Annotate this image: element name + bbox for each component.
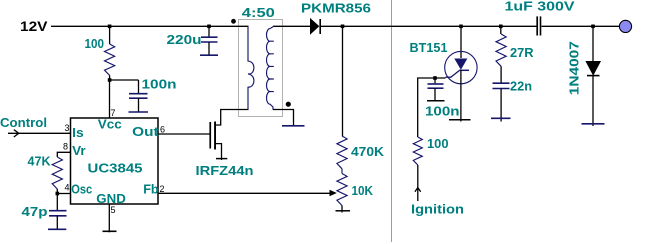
svg-text:1N4007: 1N4007	[567, 41, 582, 95]
wire ignition input	[417, 165, 419, 201]
thyristor Q2 BT151 circle	[445, 51, 477, 83]
svg-text:47K: 47K	[28, 154, 52, 169]
ground below gate 100n	[427, 100, 445, 102]
svg-text:Fb: Fb	[143, 182, 159, 197]
svg-text:GND: GND	[96, 191, 126, 206]
svg-text:100n: 100n	[142, 77, 177, 92]
resistor R 470K	[337, 136, 347, 169]
svg-text:7: 7	[111, 108, 116, 118]
diode D 1N4007	[586, 62, 600, 75]
Ignition arrow	[415, 188, 421, 192]
wire gate to RC network	[418, 78, 446, 137]
junction 12V/R100	[108, 25, 112, 29]
svg-text:1uF 300V: 1uF 300V	[505, 0, 575, 14]
wire Vcc node to 100n cap	[110, 79, 139, 81]
junction pin4/47K/47p	[56, 192, 60, 196]
wire down to 470K	[342, 26, 344, 136]
node output terminal	[619, 20, 631, 32]
wire rail to thyristor anode	[460, 26, 462, 58]
svg-text:Is: Is	[72, 125, 84, 140]
node Vcc junction	[108, 78, 112, 82]
wire pin 8	[57, 152, 70, 157]
svg-text:10K: 10K	[352, 183, 374, 198]
svg-text:47p: 47p	[22, 204, 48, 219]
svg-text:470K: 470K	[351, 144, 385, 159]
transistor Q1 IRFZ44n gate bar	[209, 122, 211, 149]
capacitor C 47p	[56, 194, 58, 211]
svg-text:4: 4	[65, 183, 70, 193]
resistor R 27R	[496, 34, 506, 66]
transformer secondary winding	[267, 26, 274, 109]
wire pin 4	[57, 193, 70, 195]
thyristor cathode bar	[459, 69, 469, 71]
transformer primary winding	[248, 26, 254, 109]
svg-text:Control: Control	[0, 115, 47, 130]
wire pin 5 to ground	[108, 204, 110, 232]
svg-text:27R: 27R	[510, 45, 534, 60]
wire secondary bottom to ground	[273, 110, 294, 126]
vertical gray separator line	[391, 0, 393, 242]
junction 12V/C220u	[207, 25, 211, 29]
svg-text:8: 8	[63, 142, 68, 152]
capacitor C 100n (Vcc decoupling)	[138, 80, 140, 93]
svg-text:Vr: Vr	[72, 143, 86, 158]
wire drain to transformer primary	[216, 110, 249, 126]
thyristor triangle	[454, 59, 467, 70]
svg-text:IRFZ44n: IRFZ44n	[196, 163, 254, 178]
transformer primary phase dot	[231, 19, 236, 24]
svg-text:220u: 220u	[167, 32, 202, 47]
svg-text:5: 5	[111, 205, 116, 215]
svg-text:6: 6	[160, 124, 165, 134]
Control arrow	[14, 130, 19, 137]
ground below 1N4007	[582, 123, 605, 125]
svg-text:12V: 12V	[20, 18, 48, 34]
svg-text:3: 3	[65, 123, 70, 133]
capacitor C 22n	[493, 82, 510, 84]
diode D PKMR856	[311, 19, 319, 34]
ground below 10K	[336, 210, 351, 212]
wire rail to 1N4007	[592, 26, 594, 61]
wire diode cathode to 1uF capacitor	[321, 25, 537, 27]
capacitor C 1uF 300V	[536, 16, 538, 35]
resistor R 10K potentiometer	[337, 174, 347, 206]
svg-text:100: 100	[85, 36, 105, 51]
ground below C 47p	[48, 228, 66, 230]
capacitor C 220u	[208, 26, 210, 36]
ground below thyristor	[449, 119, 471, 121]
svg-text:Osc: Osc	[71, 182, 92, 197]
wire pin 2 Fb to pot wiper	[158, 192, 331, 194]
wire source to ground	[216, 144, 222, 160]
svg-text:2: 2	[160, 184, 165, 194]
junction rail/27R	[499, 25, 503, 29]
transformer T1 outline box	[239, 20, 283, 117]
wire pin 6 Out to MOSFET gate	[158, 133, 210, 135]
svg-text:UC3845: UC3845	[88, 161, 143, 176]
ground below secondary	[282, 125, 305, 127]
ground below 22n	[491, 117, 511, 119]
svg-text:Vcc: Vcc	[98, 116, 122, 131]
thyristor gate lead	[446, 70, 460, 77]
wire 1N4007 to ground	[592, 76, 594, 126]
wire cathode to ground	[460, 70, 462, 121]
wire 12V rail to transformer primary top	[51, 25, 249, 27]
resistor R 100 (ignition)	[413, 137, 422, 165]
ground below source	[216, 158, 227, 160]
junction rail/1N4007	[591, 25, 595, 29]
junction gate/100n	[433, 76, 437, 80]
svg-text:100n: 100n	[425, 104, 460, 119]
resistor R 100 (Vcc feed)	[109, 26, 111, 44]
transformer secondary phase dot	[286, 102, 291, 107]
svg-text:BT151: BT151	[410, 40, 448, 55]
wire secondary top to diode anode	[273, 25, 311, 27]
svg-text:4:50: 4:50	[242, 5, 275, 20]
wire rail to 27R	[500, 26, 502, 34]
pot wiper arrow	[330, 190, 337, 197]
ground below C 100n	[129, 111, 149, 113]
svg-text:PKMR856: PKMR856	[301, 1, 371, 16]
svg-text:22n: 22n	[510, 79, 532, 94]
transistor Q1 IRFZ44n channel bar	[214, 122, 216, 150]
svg-text:Ignition: Ignition	[411, 202, 464, 217]
svg-text:100: 100	[427, 136, 449, 151]
wire Vcc node down to pin 7	[109, 80, 111, 118]
wire Control to pin 3	[8, 132, 71, 134]
svg-text:Out: Out	[132, 124, 159, 139]
ground below pin 5	[103, 230, 117, 232]
ground below C 220u	[200, 54, 218, 56]
op-amp U1 UC3845 body	[71, 118, 159, 204]
capacitor C 100n (gate)	[434, 78, 436, 83]
wire 1uF capacitor to output terminal	[542, 25, 620, 27]
junction top rail / thyristor	[459, 25, 463, 29]
junction diode output / divider	[341, 25, 345, 29]
resistor R 47K	[52, 157, 62, 189]
